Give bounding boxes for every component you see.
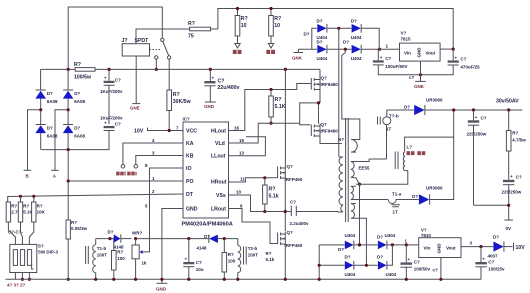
diode UR3060 lower: [399, 110, 454, 205]
node bus GND stem: [160, 278, 163, 281]
node sense R100: [108, 237, 111, 240]
svg-text:Q?: Q?: [321, 76, 328, 81]
diode U404 d: [351, 19, 362, 41]
svg-text:LRout: LRout: [211, 207, 226, 213]
svg-text:1k: 1k: [142, 261, 148, 266]
svg-text:GND: GND: [186, 207, 198, 213]
wire IO to potentiometer wiper: [143, 168, 183, 252]
svg-text:L?: L?: [407, 145, 413, 150]
resistor R 4.7/5w: [506, 110, 526, 180]
svg-text:U404: U404: [351, 35, 362, 40]
resistor R 5.1K: [18, 202, 22, 222]
wire mid rail y69: [41, 68, 320, 70]
wire ground bus: [6, 278, 482, 280]
node 0V junction: [507, 204, 510, 207]
wire HLout pin16 to Q2 gate net: [229, 103, 319, 143]
svg-text:D?: D?: [108, 230, 114, 235]
wire fan2 arrow stem: [270, 36, 272, 44]
ground bar relay: [132, 103, 140, 105]
wire rectifier2 left column: [318, 245, 320, 279]
svg-text:16: 16: [234, 125, 240, 130]
node rail x68: [67, 68, 70, 71]
terminal B: [24, 169, 32, 171]
node secondary mid tap: [358, 183, 361, 186]
ground bar C22u: [205, 101, 216, 103]
inductor L aux: [395, 137, 454, 171]
wire U404 upper row: [312, 28, 379, 49]
node rect2 left mid: [318, 264, 321, 267]
wire 7815 gnd stem: [420, 61, 422, 81]
wire bridge column2: [67, 69, 69, 149]
svg-text:N?: N?: [338, 137, 344, 142]
svg-text:Q?: Q?: [287, 230, 294, 235]
node Q4 bus: [284, 278, 287, 281]
svg-text:PO: PO: [186, 179, 194, 185]
resistor R 0.05/3w: [66, 220, 70, 239]
node 7810 gnd bus: [439, 278, 442, 281]
capacitor C 100uF/50V: [373, 49, 421, 75]
diode D 4148 right: [197, 234, 238, 251]
svg-text:15: 15: [239, 138, 245, 143]
relay switch common contact: [161, 38, 164, 41]
svg-text:75: 75: [188, 34, 194, 40]
svg-text:4? 3? 2?: 4? 3? 2?: [7, 283, 26, 288]
regulator V 7810 box: [419, 238, 461, 258]
resistor R5.1K upper: [269, 96, 274, 117]
svg-text:V?: V?: [401, 31, 407, 36]
svg-text:C?: C?: [414, 260, 420, 265]
wire HRout pin11 to Q3 gate: [229, 178, 278, 182]
relay switch contact left: [155, 56, 158, 59]
svg-text:EE55: EE55: [359, 166, 371, 171]
svg-text:7810: 7810: [421, 233, 432, 238]
wire R5.1K leads: [270, 90, 272, 124]
svg-text:11: 11: [240, 176, 245, 181]
node half bridge upper: [317, 101, 320, 104]
node T2-b bus: [236, 278, 239, 281]
wire R75 right to rail: [211, 28, 218, 30]
wire left column x68: [67, 181, 69, 279]
node R5.1K bottom: [269, 122, 272, 125]
wire sense net left: [96, 238, 114, 240]
svg-text:D?: D?: [47, 126, 53, 131]
wire secondary mid to T1-a: [356, 199, 388, 201]
wire rail to Q1 drain: [319, 69, 321, 77]
relay switch contact right: [167, 56, 170, 59]
svg-text:GND: GND: [416, 47, 421, 58]
wire relay top to R75: [136, 29, 190, 44]
diode U404 r2b: [377, 255, 397, 278]
svg-text:R?: R?: [71, 220, 77, 225]
svg-text:UR3060: UR3060: [426, 98, 443, 103]
capacitor C 10u: [183, 239, 204, 280]
svg-text:T2-b: T2-b: [248, 246, 258, 251]
wire relay coil bottom to GND: [135, 56, 137, 103]
node R100 right bus: [223, 278, 226, 281]
node U404 right lower: [378, 48, 381, 51]
svg-text:+: +: [212, 76, 215, 81]
svg-text:R?: R?: [117, 250, 123, 255]
svg-text:R?: R?: [173, 92, 180, 98]
wire sense net mid: [136, 238, 209, 240]
diode U404 a: [317, 40, 328, 61]
svg-text:SW DIP-3: SW DIP-3: [38, 250, 58, 255]
resistor R100/5w: [75, 68, 95, 72]
wire Q3 source to mid: [284, 180, 286, 232]
svg-text:D?: D?: [47, 91, 53, 96]
wire AC input A: [55, 110, 68, 170]
svg-text:7815: 7815: [401, 37, 412, 42]
svg-text:6A08: 6A08: [47, 99, 58, 104]
svg-text:+: +: [104, 121, 107, 126]
svg-text:R?: R?: [274, 16, 281, 22]
wire N turn feed from U404 mid lower: [342, 49, 360, 152]
svg-text:+: +: [408, 257, 411, 262]
switch lever 2: [20, 250, 24, 266]
node PO left junction: [67, 179, 70, 182]
resistor R 10K: [32, 202, 36, 222]
svg-text:IO: IO: [186, 166, 191, 172]
transformer primary winding: [338, 157, 343, 212]
svg-text:GND: GND: [436, 243, 441, 254]
wire KA to test point 1: [123, 143, 183, 165]
resistor R30K/5w: [167, 90, 172, 111]
svg-text:R?: R?: [74, 62, 81, 68]
svg-text:c?: c?: [433, 268, 439, 273]
diode D2 6A08: [63, 90, 86, 104]
wire LRout pin6 to Q4 gate: [229, 209, 278, 244]
svg-text:R?: R?: [266, 251, 272, 256]
wire right contact down to R30K: [168, 59, 170, 90]
diode D 4148 left: [108, 230, 132, 250]
diode UR3060 upper: [387, 98, 523, 116]
relay switch blade: [163, 41, 169, 55]
wire R30K to VCC node: [168, 111, 170, 131]
svg-text:R?: R?: [275, 97, 282, 103]
node fan2 rail junction: [269, 7, 272, 10]
svg-text:D?: D?: [204, 234, 210, 239]
svg-text:13: 13: [239, 150, 245, 155]
transformer secondary upper: [351, 162, 360, 185]
wire 7810 Vout: [461, 246, 493, 248]
svg-text:6A08: 6A08: [74, 99, 85, 104]
svg-text:c?: c?: [409, 75, 415, 80]
wire rect2 row1: [319, 244, 419, 246]
svg-text:IRF9460: IRF9460: [321, 129, 339, 134]
winding T1-b feedback: [86, 239, 108, 280]
svg-text:GNE: GNE: [130, 106, 140, 111]
svg-text:100uF/50V: 100uF/50V: [385, 64, 407, 69]
node rail x285: [284, 68, 287, 71]
node bridge mid2: [67, 108, 70, 111]
svg-text:D?: D?: [317, 40, 323, 45]
ground bar 7815: [415, 80, 426, 82]
terminal 10V output: [513, 243, 515, 251]
svg-text:D?: D?: [351, 19, 357, 24]
winding T?-b current transformer: [378, 110, 399, 159]
svg-text:VSs: VSs: [216, 193, 226, 199]
svg-text:D?: D?: [404, 105, 410, 110]
wire 7810 gnd stem: [440, 258, 442, 280]
svg-text:D?: D?: [74, 91, 80, 96]
ground symbol U404 net: [294, 49, 304, 52]
svg-text:V?: V?: [421, 228, 427, 233]
svg-text:6A08: 6A08: [47, 134, 58, 139]
op-amp U1 PM4020A controller box: [183, 122, 229, 218]
transformer secondary lower: [351, 204, 367, 266]
node Vout C100/25 tap: [479, 245, 482, 248]
svg-text:D?: D?: [74, 126, 80, 131]
svg-text:2.2u400v: 2.2u400v: [290, 221, 310, 226]
svg-text:1T: 1T: [386, 127, 392, 132]
wire U404 lower row: [298, 48, 379, 50]
node x68 y149: [67, 148, 70, 151]
switch S1 SW DIP-3 box: [10, 244, 37, 272]
test point 校验1: [121, 165, 125, 169]
diode U404 b: [343, 40, 362, 61]
wire primary feed from U404 mid upper: [338, 28, 340, 157]
svg-text:KA: KA: [186, 141, 194, 147]
svg-text:IRFP460: IRFP460: [285, 243, 303, 248]
svg-text:U404: U404: [345, 233, 356, 238]
svg-text:GND: GND: [204, 104, 215, 109]
node U404 mid lower: [344, 48, 347, 51]
diode U404 c: [317, 19, 328, 41]
node rect2 Vin tap: [405, 243, 408, 246]
wire Vin 7815 feed: [380, 48, 400, 50]
resistor R5.1K lower: [263, 185, 268, 204]
resistor R100 right: [222, 239, 236, 280]
node 30v rail x453: [452, 108, 455, 111]
svg-text:Vin: Vin: [404, 51, 411, 56]
arrow fan1: [235, 44, 240, 49]
wire PO to left column: [68, 150, 183, 181]
wire dividers to DIP switch: [8, 222, 33, 244]
resistor R100 left: [110, 239, 125, 280]
test point 校验2: [134, 165, 138, 169]
svg-text:UR3060: UR3060: [426, 186, 443, 191]
svg-text:+: +: [455, 55, 458, 60]
svg-text:R?: R?: [11, 204, 17, 209]
svg-text:U404: U404: [386, 272, 397, 277]
svg-text:R?: R?: [228, 252, 234, 257]
node 7815 gnd junction: [419, 73, 422, 76]
svg-text:100: 100: [228, 259, 236, 264]
svg-text:+: +: [510, 174, 513, 179]
svg-text:U404: U404: [317, 35, 328, 40]
svg-text:10V: 10V: [134, 129, 144, 135]
svg-text:C?: C?: [290, 200, 296, 205]
svg-text:4148: 4148: [114, 245, 125, 250]
relay switch dashed link: [150, 49, 161, 51]
svg-text:IRF9460: IRF9460: [321, 82, 339, 87]
svg-text:KB: KB: [186, 154, 194, 160]
svg-text:S?: S?: [38, 244, 44, 249]
svg-text:100/25v: 100/25v: [488, 267, 505, 272]
node U404 mid upper: [337, 27, 340, 30]
winding T1-a current transformer: [388, 192, 402, 215]
svg-text:C?: C?: [385, 56, 391, 61]
capacitor C 100/25v: [475, 247, 505, 280]
node rail x210: [209, 68, 212, 71]
wire fan1 arrow stem: [237, 36, 239, 44]
svg-text:Q?: Q?: [321, 122, 328, 127]
node R5.1K lower bottom: [263, 210, 266, 213]
svg-text:U404: U404: [317, 56, 328, 61]
svg-text:IC?: IC?: [183, 117, 191, 122]
svg-text:5.1K: 5.1K: [275, 104, 286, 110]
svg-text:D?: D?: [343, 40, 349, 45]
svg-text:100/5w: 100/5w: [74, 75, 92, 81]
svg-text:220/250w: 220/250w: [502, 190, 522, 195]
svg-text:C?: C?: [115, 122, 121, 127]
svg-text:D?: D?: [377, 235, 383, 240]
wire AC input B: [28, 110, 41, 170]
wire secondary top tap to Tb: [356, 159, 387, 162]
svg-text:C?: C?: [115, 78, 121, 83]
node R5.1K top: [269, 88, 272, 91]
svg-text:T1-b: T1-b: [97, 246, 107, 251]
wire R5.1K lower leads: [264, 178, 266, 212]
diode D 4007: [488, 235, 513, 259]
svg-text:PM4020A/PM4060A: PM4020A/PM4060A: [182, 222, 233, 228]
svg-text:VLd: VLd: [215, 141, 225, 147]
svg-text:+: +: [482, 257, 485, 262]
wire left contact to main rail: [155, 59, 157, 69]
svg-text:IRFP460: IRFP460: [285, 177, 303, 182]
regulator V 7815 box: [400, 43, 441, 61]
svg-text:D?: D?: [377, 255, 383, 260]
svg-text:100/50v: 100/50v: [414, 267, 431, 272]
svg-text:1KuF/200v: 1KuF/200v: [100, 89, 123, 94]
svg-text:HRout: HRout: [211, 180, 227, 186]
ground bar main: [157, 282, 168, 284]
node DT divider 2: [32, 195, 35, 198]
node left column bus: [67, 278, 70, 281]
svg-text:GND: GND: [156, 287, 167, 292]
node DIP bus 1: [21, 278, 24, 281]
node rect2 row1 right: [391, 243, 394, 246]
svg-text:1T: 1T: [393, 210, 399, 215]
node rect2 left bus: [318, 278, 321, 281]
resistor R75: [190, 27, 211, 31]
wire bridge column1: [40, 69, 42, 149]
node T1-b bus: [94, 278, 97, 281]
potentiometer WR?: [132, 231, 147, 280]
svg-text:+: +: [104, 76, 107, 81]
svg-text:DT: DT: [186, 192, 194, 198]
capacitor C 220/250w first: [467, 110, 487, 205]
svg-text:HLout: HLout: [211, 129, 226, 135]
svg-text:D?: D?: [317, 19, 323, 24]
transformer T1 EE55 core: [346, 118, 349, 222]
switch lever 3: [27, 250, 31, 266]
svg-text:10: 10: [241, 23, 247, 29]
svg-text:GNK: GNK: [292, 56, 303, 61]
node 30v rail x508: [507, 108, 510, 111]
node rect2 row2 mid: [365, 264, 368, 267]
transformer secondary mid: [351, 186, 356, 199]
svg-text:10V: 10V: [516, 245, 526, 251]
svg-text:R?: R?: [269, 187, 276, 193]
svg-text:LLout: LLout: [211, 154, 226, 160]
svg-text:R?: R?: [241, 16, 248, 22]
node WR bus: [134, 278, 137, 281]
svg-text:T1-a: T1-a: [392, 192, 402, 197]
svg-text:Q?: Q?: [287, 164, 294, 169]
svg-text:+: +: [475, 115, 478, 120]
svg-text:4.7/5w: 4.7/5w: [512, 138, 526, 143]
svg-text:4148: 4148: [197, 246, 208, 251]
wire DT to divider resistors: [8, 194, 183, 202]
terminal A: [51, 169, 59, 171]
node DT divider 1: [19, 195, 22, 198]
svg-text:D?: D?: [345, 255, 351, 260]
wire VSs pin10 to half-bridge mid: [229, 195, 286, 212]
svg-text:VCC: VCC: [186, 129, 197, 135]
node C10u tap: [187, 237, 190, 240]
wire LLout pin13 stub: [229, 137, 266, 156]
diode U404 r2a: [345, 255, 356, 278]
wire KB to test point 2: [136, 156, 183, 165]
diode U404 r1b: [377, 233, 396, 249]
capacitor C 2.2u400v: [285, 200, 338, 227]
svg-text:+: +: [185, 257, 188, 262]
svg-text:5.1k: 5.1k: [269, 194, 279, 200]
wire divider tops: [21, 196, 34, 202]
node 30v rail x473: [472, 108, 475, 111]
transistor Q4 IRFP460: [278, 230, 303, 248]
wire Q1 source to Q2 drain: [319, 90, 321, 123]
capacitor C 470uF/25: [421, 49, 481, 75]
wire GND pin to ground: [162, 209, 183, 284]
resistor R10 fan1: [237, 9, 239, 16]
svg-text:30v/50AV: 30v/50AV: [496, 99, 519, 105]
node rail x109: [108, 68, 111, 71]
svg-text:R?: R?: [188, 21, 195, 27]
svg-text:C?: C?: [218, 79, 225, 85]
svg-text:D?: D?: [338, 247, 344, 252]
svg-text:U404: U404: [345, 272, 356, 277]
svg-text:+: +: [380, 55, 383, 60]
wire top rail left segment: [68, 7, 162, 69]
svg-text:C?: C?: [516, 175, 522, 180]
svg-text:10: 10: [274, 23, 280, 29]
svg-text:0.05/3w: 0.05/3w: [71, 226, 88, 231]
svg-text:GNE: GNE: [414, 84, 424, 89]
svg-text:D?: D?: [493, 235, 499, 240]
node VCC junction: [168, 129, 171, 132]
svg-text:U404: U404: [385, 233, 396, 238]
node second tap: [223, 237, 226, 240]
svg-text:Vout: Vout: [426, 51, 436, 56]
svg-text:D?: D?: [304, 32, 310, 37]
svg-text:10K: 10K: [37, 210, 46, 215]
svg-text:4007: 4007: [488, 254, 499, 259]
svg-text:R?: R?: [512, 131, 518, 136]
svg-text:6A08: 6A08: [74, 134, 85, 139]
svg-text:100: 100: [117, 256, 125, 261]
svg-text:5.1k: 5.1k: [266, 257, 275, 262]
svg-text:D?: D?: [412, 194, 418, 199]
switch lever 1: [13, 250, 17, 266]
node C100/50 bus: [405, 278, 408, 281]
node rect2 row1 mid: [358, 243, 361, 246]
wire tap to L aux: [356, 171, 408, 185]
wire Q2 source down: [320, 137, 342, 144]
node bridge mid1: [39, 108, 42, 111]
node fan1 rail junction: [236, 7, 239, 10]
